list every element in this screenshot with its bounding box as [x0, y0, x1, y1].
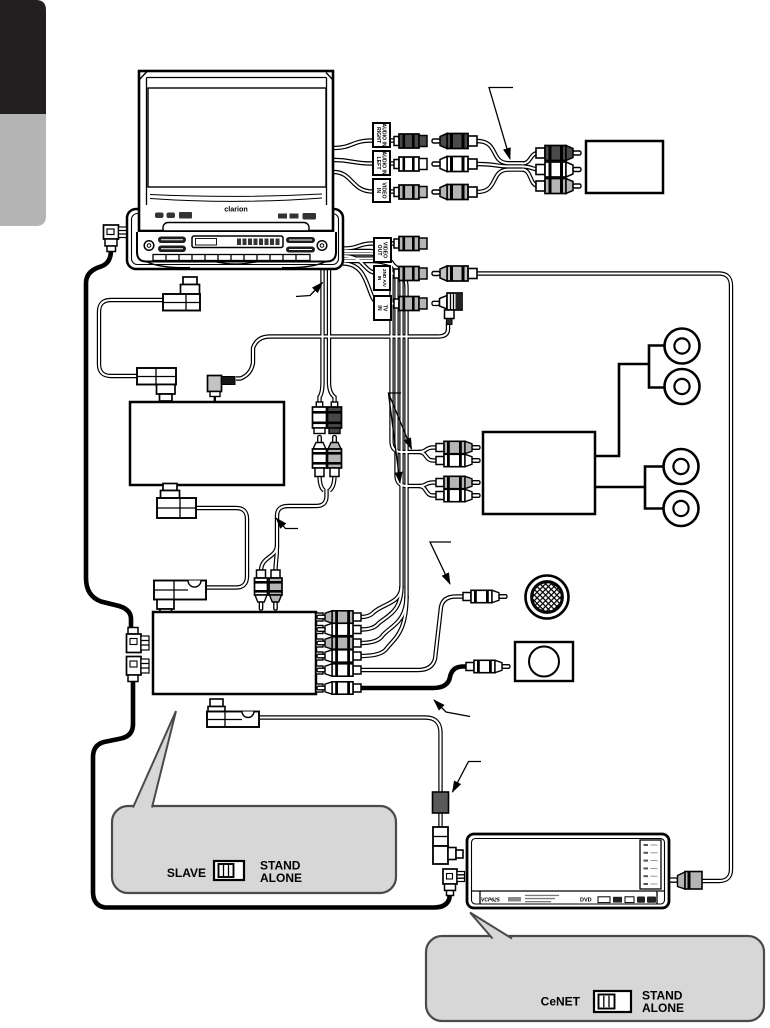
wire extension male gray (core) — [330, 475, 335, 491]
extension female dark — [328, 402, 342, 434]
wire monitor DIN loop (outline) — [99, 300, 163, 376]
wire extension male white (core) — [320, 475, 325, 491]
plug 2ND A/V (gray) — [432, 266, 477, 281]
box TV tuner unit — [130, 402, 284, 485]
wire bundle 4 split b (core) — [361, 596, 407, 656]
plug TV IN right-angle mini — [432, 293, 462, 325]
plug lower box 6 — [317, 682, 361, 694]
box second display — [515, 642, 573, 681]
wire bundle 3 (core) — [343, 259, 402, 589]
wire bundle 2 (outline) — [343, 254, 420, 487]
extension female white — [313, 402, 327, 434]
wire bundle to white plug (core) — [522, 167, 539, 170]
wire bundle 4 split a (core) — [361, 596, 407, 643]
svg-text:ALONE: ALONE — [642, 1001, 684, 1015]
wire tuner box to lower box DIN (core) — [196, 508, 247, 588]
wire bundle to gray plug (core) — [522, 170, 539, 187]
callout pointer SLAVE — [133, 711, 176, 809]
plug AUDIO left (white) — [432, 157, 477, 172]
svg-text:RIGHT: RIGHT — [375, 127, 381, 144]
wire bundle 1 split b (core) — [419, 452, 437, 461]
wire monitor to VIDEO IN (core) — [334, 172, 396, 192]
plug to game box video — [536, 179, 581, 194]
wire bundle 2 split b (core) — [419, 486, 437, 496]
wire 2ND A/V to VCP right RCA (core) — [477, 274, 731, 882]
wire base to extension female white (outline) — [320, 266, 323, 403]
face left knob — [144, 241, 154, 251]
wire base to 2ND A/V IN (core) — [343, 256, 396, 274]
wire CeNET lower box to VCP635 (thick black) — [93, 681, 450, 908]
wire amp to front speakers — [595, 346, 664, 457]
wire monitor to AUDIO IN LEFT (outline) — [334, 160, 396, 164]
wire monitor to AUDIO IN LEFT (core) — [334, 160, 396, 164]
wire base to VIDEO OUT (core) — [343, 244, 396, 249]
jack stub lower box 1 — [316, 613, 323, 621]
svg-text:DVD: DVD — [580, 898, 592, 904]
svg-text:OUT: OUT — [376, 245, 382, 257]
face display window — [192, 236, 283, 248]
wire bundle 4 (core) — [343, 261, 407, 598]
wire AUDIO R plug to bundle (outline) — [477, 141, 523, 163]
wire bundle 3 split a (outline) — [361, 586, 402, 617]
extension male gray — [328, 436, 342, 477]
plug to game box audio R — [536, 146, 581, 161]
label AUDIO IN LEFT — [373, 151, 390, 175]
speaker 2 — [665, 369, 700, 404]
CeNET plug D2 — [127, 657, 150, 682]
amplifier box — [483, 432, 595, 514]
wire monitor DIN loop (core) — [99, 300, 163, 376]
DIN plug C3 (to tuner box bottom) — [157, 484, 196, 519]
wire AUDIO L plug to bundle (core) — [477, 164, 523, 166]
wire bundle 1 (core) — [343, 251, 420, 452]
wire extension trunk (outline) — [277, 489, 327, 545]
mini plug above tuner box — [208, 376, 236, 402]
page tab gray — [0, 114, 46, 226]
microphone — [526, 576, 569, 619]
wire bundle to white plug (outline) — [522, 167, 539, 170]
svg-text:clarion: clarion — [224, 205, 248, 214]
plug lower box 4 — [317, 650, 361, 662]
plug VIDEO (gray) — [432, 185, 477, 200]
wire bundle 1 split a (core) — [419, 448, 437, 453]
wire VIDEO plug to bundle (core) — [477, 170, 523, 192]
svg-text:IN: IN — [377, 276, 382, 281]
wire bundle 1 (outline) — [343, 251, 420, 452]
plug lower box 2 — [317, 623, 361, 635]
jack VIDEO OUT — [394, 237, 427, 251]
box video game / VCR — [586, 141, 663, 193]
wire bundle 2 split a (core) — [419, 483, 437, 487]
wire bundle 3 split a (core) — [361, 586, 402, 617]
svg-text:VCP625: VCP625 — [481, 898, 500, 904]
wire bundle 1 split a (outline) — [419, 448, 437, 453]
wire bundle 2 split b (outline) — [419, 486, 437, 496]
DIN plug C7 (to VCP side) — [433, 827, 463, 864]
wire lower box DIN to VCP DIN (outline) — [259, 718, 441, 828]
svg-text:ALONE: ALONE — [260, 871, 302, 885]
wire bundle 3 split b (outline) — [361, 586, 402, 630]
speaker 3 — [664, 449, 699, 484]
wire lower box to microphone RCA (core) — [361, 597, 464, 671]
wire TV IN plug to tuner mini plug (outline) — [236, 322, 448, 379]
plug amp input 1 (gray) — [436, 441, 480, 453]
speaker 4 — [664, 491, 699, 526]
wire base to extension female dark (outline) — [329, 266, 335, 403]
annotation arrow to game cable — [489, 88, 513, 160]
jack AUDIO IN RIGHT — [394, 134, 427, 148]
wire extension male white (outline) — [320, 475, 325, 491]
wire bundle 3 split b (core) — [361, 586, 402, 630]
label 2ND A/V IN — [374, 266, 390, 290]
jack stub lower box 2 — [316, 626, 323, 634]
wire base to extension female dark (core) — [329, 266, 335, 403]
monitor slot — [163, 223, 309, 234]
annotation arrow to ferrite cable — [453, 762, 482, 793]
jack TV IN — [394, 297, 427, 311]
callout pointer CeNET — [470, 913, 512, 940]
monitor logos left — [155, 212, 192, 219]
plug amp input 2 (white) — [436, 454, 480, 466]
extension male white — [313, 436, 327, 477]
VCP button 1 — [644, 844, 658, 846]
label VIDEO IN — [373, 179, 390, 202]
jack stub lower box 5 — [316, 666, 323, 674]
wire base to VIDEO OUT (outline) — [343, 244, 396, 249]
wire bundle to gray plug (outline) — [522, 170, 539, 187]
jack 2ND A/V IN — [394, 267, 427, 281]
jack stub lower box 4 — [316, 652, 323, 660]
base unit chassis — [127, 209, 343, 269]
plug VCP right RCA — [670, 872, 703, 890]
VCP button 5 — [644, 875, 658, 877]
wire monitor to AUDIO IN RIGHT (core) — [334, 141, 396, 149]
svg-text:IN: IN — [376, 305, 382, 310]
wire bundle 2 split a (outline) — [419, 483, 437, 487]
label AUDIO IN RIGHT — [373, 123, 390, 147]
wire extension split left (core) — [261, 545, 277, 571]
wire monitor to AUDIO IN RIGHT (outline) — [334, 141, 396, 149]
DIN plug C1 (to monitor base) — [163, 277, 200, 311]
svg-text:SLAVE: SLAVE — [167, 866, 206, 880]
wire bundle 4 split a (outline) — [361, 596, 407, 643]
wire extension trunk (core) — [277, 489, 327, 545]
jack stub lower box 3 — [316, 639, 323, 647]
VCP micro text — [525, 895, 559, 903]
VCP635 DVD player unit — [467, 834, 669, 908]
VCP button 4 — [644, 867, 658, 869]
wire amp to rear speakers — [595, 467, 663, 509]
ferrite bead on VCP cable — [433, 792, 449, 813]
jack AUDIO IN LEFT — [394, 157, 427, 171]
callout bubble SLAVE — [112, 806, 396, 893]
wire AUDIO R plug to bundle (core) — [477, 141, 523, 163]
plug amp input 4 (white) — [436, 489, 480, 501]
plug amp input 3 (gray) — [436, 476, 480, 488]
CeNET plug D1 — [127, 628, 150, 653]
plug into lower box top gray — [269, 570, 282, 610]
DIN plug C6 (to lower box bottom) — [207, 699, 259, 727]
face right knob — [317, 241, 327, 251]
SLAVE switch — [214, 861, 244, 880]
face bottom arcs — [147, 262, 325, 268]
plug to game box audio L — [536, 162, 581, 177]
wire base to 2ND A/V IN (outline) — [343, 256, 396, 274]
plug to second display (white) — [466, 660, 510, 672]
monitor screen — [148, 88, 326, 187]
wire CeNET head unit to lower box (thick black) — [86, 250, 131, 629]
faceplate band — [139, 230, 333, 234]
wire VIDEO plug to bundle (outline) — [477, 170, 523, 192]
annotation arrows to amp cables — [389, 393, 412, 449]
plug lower box 3 — [317, 637, 361, 649]
wire base to TV IN (outline) — [343, 264, 396, 304]
wire tuner box to lower box DIN (outline) — [196, 508, 247, 588]
wire extension split right (outline) — [276, 545, 278, 571]
wire bundle 2 (core) — [343, 254, 420, 487]
annotation arrow to extension cable lower — [276, 518, 298, 529]
wire lower box black RCA to monitor box (thick black) — [361, 667, 466, 689]
wire base to TV IN (core) — [343, 264, 396, 304]
speaker 1 — [665, 329, 700, 364]
CeNET switch — [594, 991, 631, 1012]
face bottom button row — [153, 255, 310, 261]
plug microphone RCA — [463, 590, 507, 602]
annotation arrow to microphone cable — [430, 542, 451, 584]
wire bundle 4 split b (outline) — [361, 596, 407, 656]
jack VIDEO IN — [394, 185, 427, 199]
label VIDEO OUT — [374, 238, 391, 262]
annotation arrow to black display cable — [434, 700, 470, 717]
wire bundle 3 (outline) — [343, 259, 402, 589]
plug AUDIO right (dark) — [432, 134, 477, 149]
VCP logos — [580, 897, 656, 904]
wire 2ND A/V to VCP right RCA (outline) — [477, 274, 731, 882]
callout bubble CeNET — [426, 936, 764, 1021]
CeNET plug at head unit — [104, 225, 127, 252]
VCP button 2 — [644, 852, 658, 854]
VCP button 3 — [644, 860, 658, 862]
wire bundle to dark plug (outline) — [522, 153, 539, 164]
annotation arrow to extension cable at base — [296, 283, 323, 297]
plug into lower box top white — [255, 570, 268, 610]
svg-text:LEFT: LEFT — [375, 157, 381, 171]
wire extension split right (core) — [276, 545, 278, 571]
wire lower box DIN to VCP DIN (core) — [259, 718, 441, 828]
VCP button 6 — [644, 883, 658, 885]
box hide-away/add-on unit — [153, 612, 316, 694]
CeNET plug C8 (to VCP side) — [443, 869, 465, 896]
svg-text:CeNET: CeNET — [541, 995, 581, 1009]
label TV IN — [374, 296, 391, 320]
faceplate — [137, 232, 336, 262]
svg-text:IN: IN — [375, 188, 381, 193]
monitor display unit — [139, 71, 333, 231]
wire extension male gray (outline) — [330, 475, 335, 491]
wire bundle 1 split b (outline) — [419, 452, 437, 461]
DIN plug C2 (to tuner box) — [137, 368, 176, 401]
wire extension split left (outline) — [261, 545, 277, 571]
wire monitor to VIDEO IN (outline) — [334, 172, 396, 192]
DIN plug C4 (to lower box top) — [154, 581, 206, 616]
wire bundle to dark plug (core) — [522, 153, 539, 164]
jack stub lower box 6 — [316, 684, 323, 692]
monitor bezel curve — [150, 194, 322, 201]
wire bundle 4 (outline) — [343, 261, 407, 598]
plug lower box 5 — [317, 664, 361, 676]
page tab black — [0, 0, 46, 114]
face left buttons — [158, 237, 186, 244]
wire AUDIO L plug to bundle (outline) — [477, 164, 523, 166]
wire base to extension female white (core) — [320, 266, 323, 403]
wire TV IN plug to tuner mini plug (core) — [236, 322, 448, 379]
plug lower box 1 — [317, 611, 361, 623]
monitor logos right — [278, 213, 316, 220]
face right buttons — [286, 237, 315, 243]
wire lower box to microphone RCA (outline) — [361, 597, 464, 671]
